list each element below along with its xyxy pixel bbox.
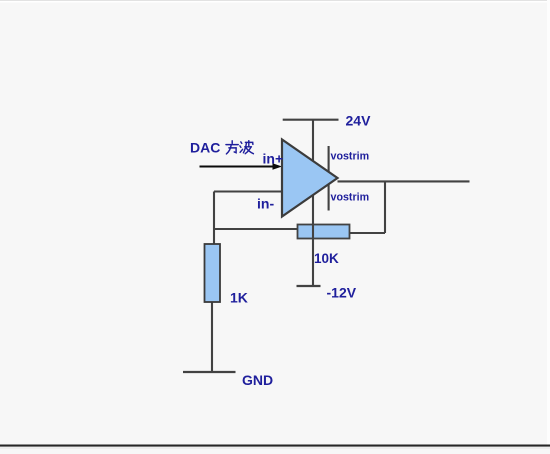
resistor R1 1K body [205,244,221,302]
svg-text:vostrim: vostrim [331,151,370,163]
label DAC fangbo (square wave) hanzi [226,141,253,154]
svg-text:DAC: DAC [190,140,220,156]
wire feedback vertical right [384,181,386,233]
frame top edge [0,0,550,1]
wire in- horizontal [214,190,282,192]
svg-text:GND: GND [242,372,273,388]
svg-text:10K: 10K [314,251,339,266]
wire in- vertical to node A [213,192,215,245]
wire R1 bottom to ground [211,302,213,372]
wire -12V rail [297,285,321,287]
wire 24V rail [283,119,339,121]
wire vostrim tick [328,146,330,211]
svg-text:-12V: -12V [327,285,357,301]
frame right edge [547,0,550,449]
svg-text:24V: 24V [346,113,372,129]
svg-text:in-: in- [257,196,274,212]
wire V+ supply vertical [312,120,314,287]
svg-text:1K: 1K [230,290,248,306]
resistor R2 10K body [298,225,350,239]
svg-text:in+: in+ [263,150,284,166]
wire feedback left (node A to R2) [214,228,298,230]
wire DAC input arrow [200,163,283,170]
wire output [338,180,470,182]
wire R2 right to feedback corner [350,232,386,234]
frame bottom bar [0,445,550,447]
svg-text:vostrim: vostrim [331,192,370,204]
op-amp U1 [282,140,338,217]
ground rail [183,371,236,373]
